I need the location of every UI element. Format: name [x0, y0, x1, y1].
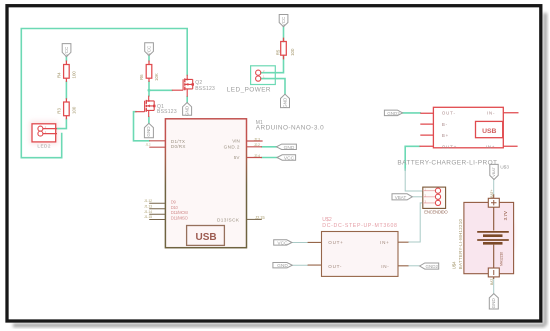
- svg-text:VCC: VCC: [277, 240, 288, 246]
- svg-text:J2.3: J2.3: [254, 137, 260, 141]
- svg-text:R6: R6: [139, 74, 144, 80]
- svg-text:J1.15: J1.15: [144, 215, 152, 219]
- svg-text:GND2: GND2: [426, 264, 439, 269]
- svg-text:BATTERY-CHARGER-LI-PROT: BATTERY-CHARGER-LI-PROT: [397, 159, 497, 166]
- svg-text:J1.2: J1.2: [146, 142, 151, 146]
- svg-text:J1.13: J1.13: [144, 204, 152, 208]
- svg-text:IN-: IN-: [487, 110, 495, 115]
- svg-text:BAT-: BAT-: [490, 278, 494, 285]
- svg-text:MH12210: MH12210: [500, 252, 504, 266]
- svg-text:DC-DC-STEP-UP-MT3608: DC-DC-STEP-UP-MT3608: [322, 223, 397, 229]
- svg-text:VBAT: VBAT: [492, 167, 496, 177]
- svg-text:R3: R3: [56, 108, 61, 114]
- svg-text:100: 100: [72, 71, 77, 79]
- svg-text:J2.4: J2.4: [254, 154, 260, 158]
- svg-text:LED_POWER: LED_POWER: [227, 86, 271, 93]
- svg-text:D0/RX: D0/RX: [171, 144, 186, 149]
- svg-text:ENCENDIDO: ENCENDIDO: [424, 210, 448, 215]
- svg-text:GND: GND: [284, 145, 295, 151]
- svg-text:GND2: GND2: [387, 111, 400, 116]
- svg-text:OUT-: OUT-: [442, 110, 456, 115]
- svg-text:GND: GND: [184, 105, 189, 116]
- svg-text:B+: B+: [442, 133, 449, 138]
- svg-text:U$3: U$3: [500, 164, 509, 170]
- svg-text:BAT+: BAT+: [490, 189, 494, 197]
- svg-text:VIN: VIN: [232, 139, 240, 144]
- svg-text:BSS123: BSS123: [157, 109, 177, 115]
- svg-text:J2.15: J2.15: [255, 215, 265, 220]
- svg-text:OUT+: OUT+: [328, 240, 343, 245]
- svg-text:VCC: VCC: [146, 45, 151, 55]
- svg-text:100: 100: [72, 106, 77, 114]
- svg-text:OUT-: OUT-: [328, 264, 342, 269]
- svg-text:ARDUINO-NANO-3.0: ARDUINO-NANO-3.0: [256, 125, 324, 132]
- svg-text:USB: USB: [482, 128, 496, 135]
- svg-text:D11/MISO: D11/MISO: [171, 215, 189, 220]
- svg-text:100: 100: [290, 48, 295, 56]
- svg-text:BATTERY-LI-MH12210: BATTERY-LI-MH12210: [458, 218, 463, 269]
- svg-text:D10: D10: [171, 205, 179, 210]
- svg-text:J2.2: J2.2: [254, 143, 260, 147]
- svg-text:J1.12: J1.12: [144, 199, 152, 203]
- svg-text:IN-: IN-: [381, 264, 389, 269]
- svg-text:R4: R4: [56, 72, 61, 78]
- svg-text:OUT+: OUT+: [442, 144, 457, 149]
- svg-text:USB: USB: [196, 232, 217, 243]
- svg-text:VCC: VCC: [64, 46, 69, 56]
- svg-text:GND: GND: [282, 97, 287, 108]
- svg-text:B-: B-: [442, 122, 448, 127]
- svg-text:U$4: U$4: [452, 261, 457, 269]
- svg-text:IN+: IN+: [380, 240, 389, 245]
- svg-text:GND: GND: [146, 126, 151, 137]
- svg-text:VBAT: VBAT: [395, 195, 407, 200]
- svg-text:VCC: VCC: [284, 156, 295, 162]
- svg-text:GND.2: GND.2: [224, 144, 240, 149]
- svg-text:LED2: LED2: [37, 143, 51, 148]
- svg-text:D13/SCK: D13/SCK: [217, 217, 240, 222]
- svg-text:VCC: VCC: [281, 16, 286, 26]
- svg-text:J1.14: J1.14: [144, 210, 152, 214]
- svg-text:IN+: IN+: [486, 144, 496, 149]
- svg-text:GND: GND: [491, 298, 496, 309]
- svg-text:GND: GND: [277, 263, 288, 269]
- svg-text:5V: 5V: [234, 155, 241, 160]
- svg-text:BSS123: BSS123: [195, 86, 215, 92]
- svg-text:3.7V: 3.7V: [503, 211, 508, 220]
- svg-text:R5: R5: [276, 49, 281, 55]
- svg-text:10K: 10K: [154, 73, 159, 81]
